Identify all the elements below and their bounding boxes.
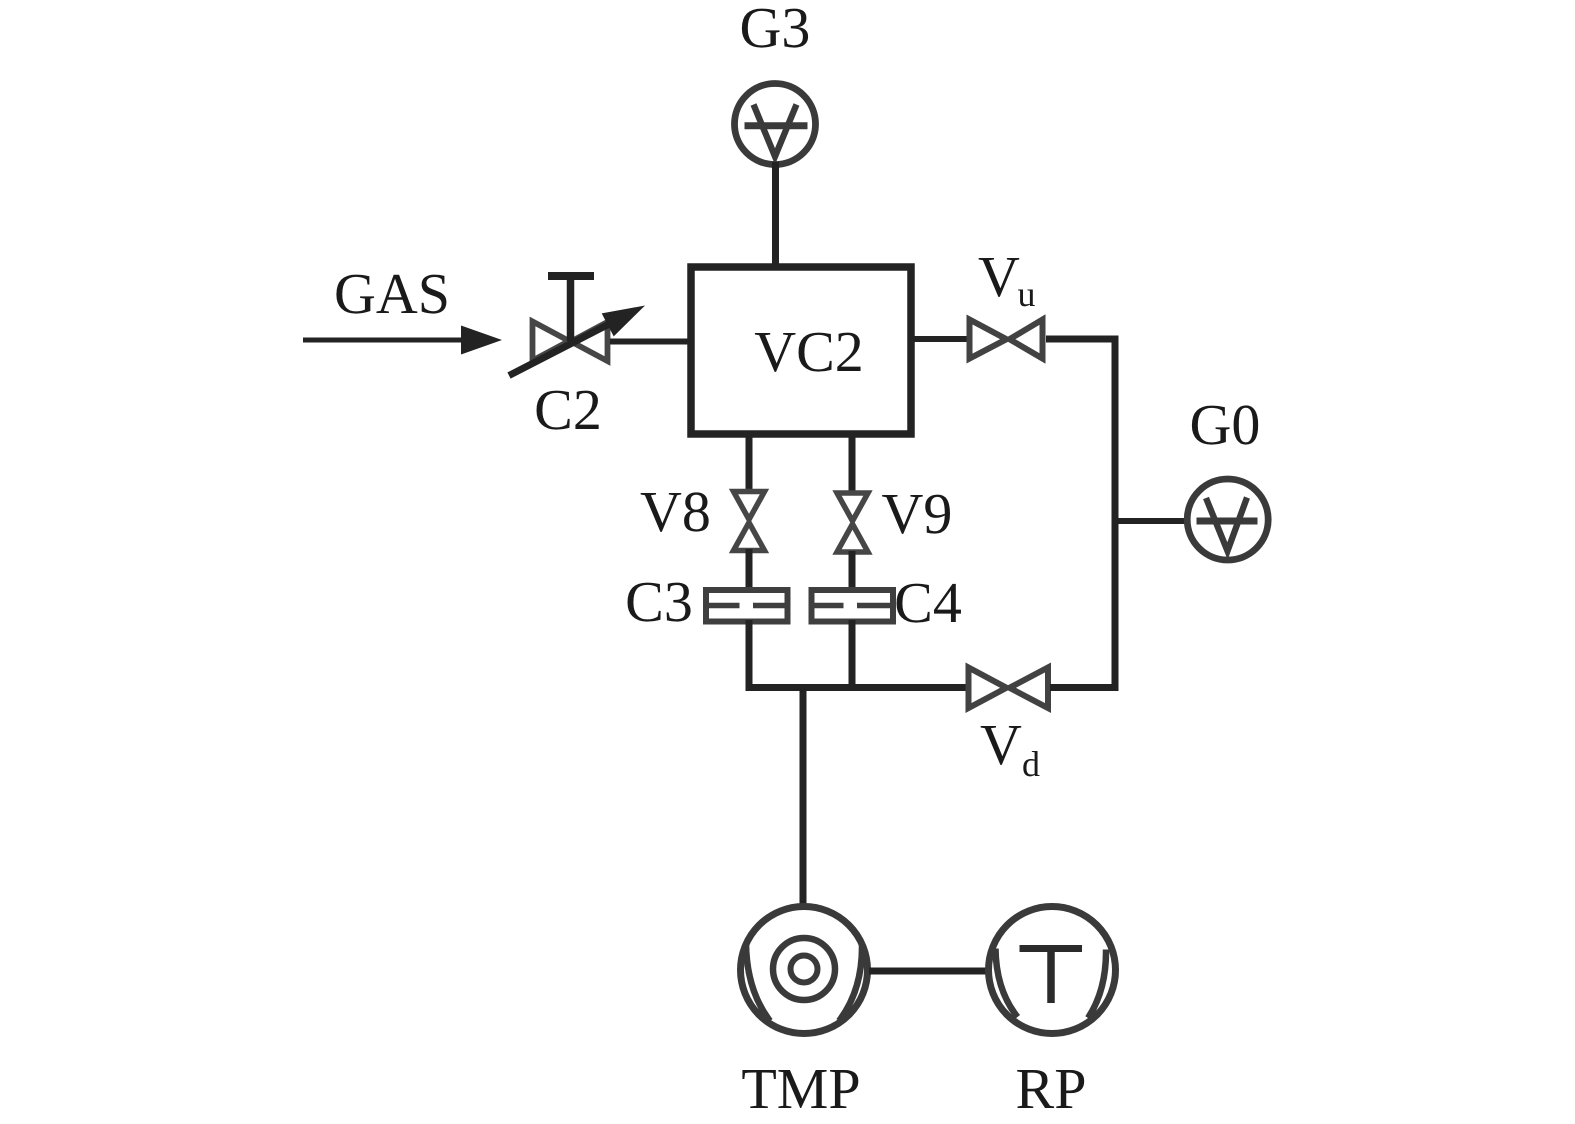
svg-text:G0: G0	[1190, 392, 1261, 457]
GAS inlet arrow	[303, 326, 502, 355]
svg-text:GAS: GAS	[334, 261, 450, 326]
capacitance gauge C4	[812, 590, 894, 622]
svg-text:TMP: TMP	[741, 1056, 860, 1121]
wire VC2 bottom left port	[746, 434, 753, 492]
svg-text:V9: V9	[882, 481, 953, 546]
wire stub to G0	[1115, 518, 1188, 524]
wire G3 stem	[772, 162, 779, 270]
valve Vu	[970, 320, 1043, 359]
svg-text:VC2: VC2	[754, 319, 864, 384]
gauge G0	[1187, 479, 1268, 560]
svg-text:RP: RP	[1016, 1056, 1087, 1121]
svg-text:C3: C3	[625, 569, 693, 634]
wire VC2 to Vu	[911, 336, 967, 342]
wire right vertical	[1112, 339, 1119, 691]
pump RP (rotary pump)	[989, 907, 1116, 1034]
valve V9	[837, 493, 868, 552]
valve V8	[734, 492, 765, 551]
pump TMP (turbomolecular pump)	[741, 907, 868, 1034]
wire V9 to C4	[849, 551, 856, 592]
gauge G3	[735, 84, 816, 165]
wire C3 down	[746, 620, 753, 691]
wire bottom manifold	[746, 684, 968, 691]
wire Vu to right corner	[1046, 336, 1119, 343]
wire Vd to right vertical	[1050, 684, 1115, 691]
wire VC2 bottom right port	[849, 434, 856, 493]
svg-text:G3: G3	[740, 0, 811, 60]
svg-text:C2: C2	[534, 377, 602, 442]
wire down to TMP	[800, 684, 807, 906]
chamber VC2	[691, 267, 911, 434]
valve C2 (variable leak valve)	[509, 276, 645, 376]
wire C4 down	[849, 620, 856, 691]
capacitance gauge C3	[706, 590, 788, 622]
svg-text:V8: V8	[640, 479, 711, 544]
wire V8 to C3	[746, 549, 753, 592]
svg-text:V: V	[980, 712, 1022, 777]
svg-text:C4: C4	[894, 570, 962, 635]
valve Vd	[969, 668, 1049, 709]
svg-text:V: V	[978, 244, 1020, 309]
wire TMP to RP	[869, 968, 987, 975]
wire C2 to VC2	[610, 339, 691, 345]
